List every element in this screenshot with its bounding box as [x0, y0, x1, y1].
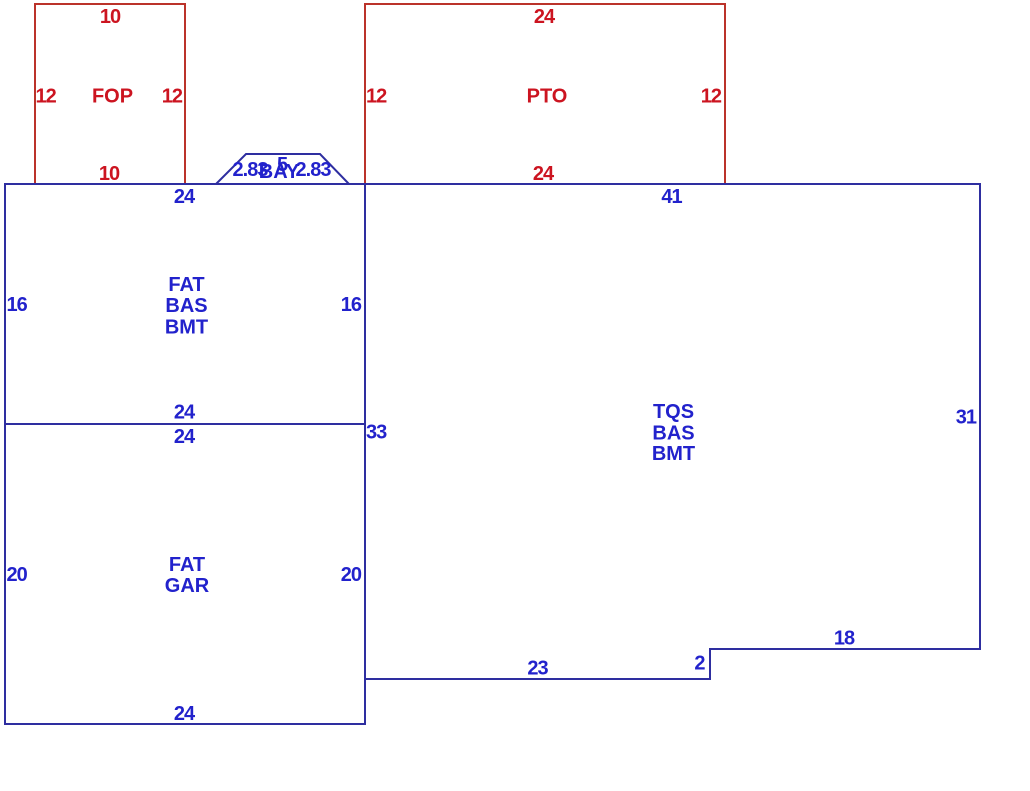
svg-text:FOP: FOP [92, 86, 133, 108]
svg-text:12: 12 [701, 86, 722, 108]
svg-text:24: 24 [533, 163, 555, 185]
svg-text:10: 10 [99, 163, 120, 185]
svg-text:12: 12 [366, 86, 387, 108]
svg-text:24: 24 [534, 6, 556, 28]
svg-text:BAS: BAS [652, 423, 694, 445]
FAT GAR rectangle [5, 424, 365, 724]
svg-text:12: 12 [162, 86, 183, 108]
svg-text:24: 24 [174, 186, 196, 208]
svg-text:BMT: BMT [652, 443, 695, 465]
svg-text:41: 41 [661, 186, 682, 208]
svg-text:BAY: BAY [259, 161, 300, 183]
svg-text:16: 16 [341, 294, 362, 316]
svg-text:20: 20 [341, 564, 362, 586]
svg-text:2.83: 2.83 [296, 159, 332, 181]
svg-text:31: 31 [956, 407, 977, 429]
svg-text:20: 20 [7, 564, 28, 586]
svg-text:GAR: GAR [165, 575, 210, 597]
FOP rectangle (red porch outline) [35, 4, 185, 184]
svg-text:2: 2 [694, 653, 705, 675]
svg-text:24: 24 [174, 426, 196, 448]
svg-text:16: 16 [7, 294, 28, 316]
svg-text:10: 10 [100, 6, 121, 28]
svg-text:24: 24 [174, 703, 196, 725]
svg-text:23: 23 [527, 658, 548, 680]
svg-text:24: 24 [174, 402, 196, 424]
svg-text:FAT: FAT [169, 554, 205, 576]
svg-text:18: 18 [834, 628, 855, 650]
FAT BAS BMT rectangle [5, 184, 365, 424]
svg-text:PTO: PTO [527, 86, 568, 108]
svg-text:12: 12 [36, 86, 57, 108]
svg-text:FAT: FAT [168, 274, 204, 296]
svg-text:TQS: TQS [653, 401, 694, 423]
BAY trapezoid [216, 154, 349, 184]
PTO rectangle (red patio outline) [365, 4, 725, 184]
svg-text:BMT: BMT [165, 317, 208, 339]
svg-text:33: 33 [366, 422, 387, 444]
svg-text:BAS: BAS [165, 295, 207, 317]
TQS BAS BMT polygon [365, 184, 980, 679]
